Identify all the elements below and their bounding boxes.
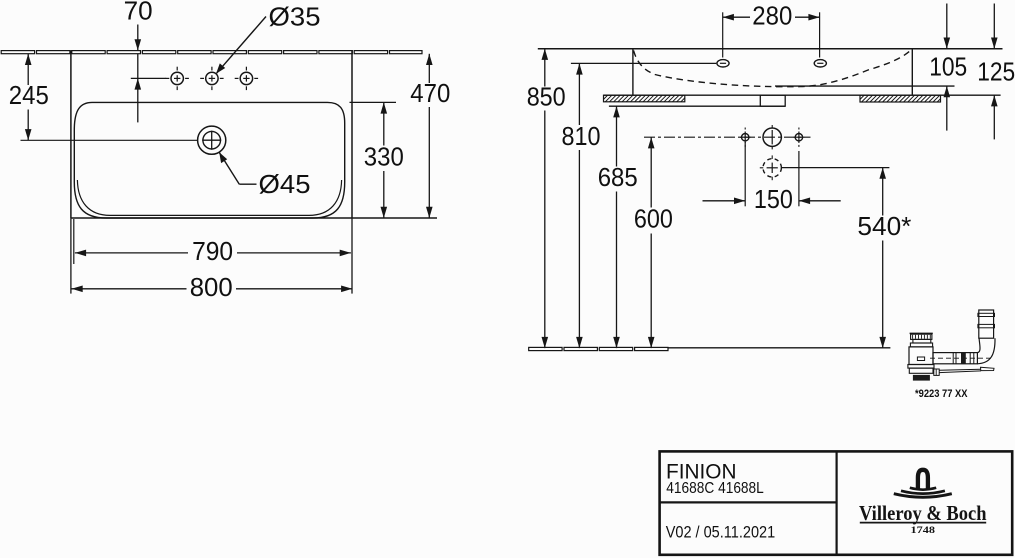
svg-text:540*: 540* [857, 211, 911, 241]
svg-text:685: 685 [598, 162, 638, 192]
tap hole centreline (front view) [571, 62, 716, 64]
wall line (top view, hatched wall face) [1, 51, 422, 54]
tap hole left (front view) [717, 60, 729, 67]
svg-text:125: 125 [977, 56, 1015, 86]
svg-text:150: 150 [754, 184, 793, 214]
drain centreline (horizontal) [21, 139, 198, 141]
dimension 600 (floor to fixing holes) [634, 137, 673, 348]
tap hole centreline [131, 77, 166, 79]
svg-text:Ø35: Ø35 [269, 2, 321, 32]
dimension 810 (floor to tap holes) [562, 63, 601, 348]
front view basin right edge [911, 49, 913, 95]
right fastening bracket (hatched) [860, 95, 941, 102]
basin rim inner edge (double line at bottom) [77, 180, 341, 215]
svg-text:330: 330 [364, 141, 404, 171]
svg-text:Ø45: Ø45 [259, 169, 311, 199]
tap hole right (front view) [814, 60, 826, 67]
waste valve body (trap illustration) [908, 333, 934, 380]
dimension 105 (rim to basin underside) [929, 4, 967, 131]
svg-text:810: 810 [562, 121, 601, 151]
svg-text:1748: 1748 [911, 525, 936, 536]
svg-text:105: 105 [929, 52, 967, 82]
inner basin rim (rounded rectangle) [74, 102, 344, 218]
vertical waste pipe [978, 310, 995, 338]
svg-text:470: 470 [410, 78, 450, 108]
dimension 245 (wall to drain centre) [9, 54, 49, 141]
Villeroy & Boch logo arch [918, 470, 928, 489]
pop-up rod [934, 367, 994, 375]
tap hole right (top view) [235, 67, 258, 90]
tap hole middle (top view) [200, 67, 223, 90]
front view basin left edge [632, 49, 634, 95]
svg-text:600: 600 [634, 204, 673, 234]
drain hole Ø45 (top view) [198, 126, 226, 154]
svg-text:245: 245 [9, 80, 49, 110]
pipe elbow [977, 338, 995, 364]
hidden basin contour (dashed) [634, 50, 912, 87]
extension lines below basin [71, 218, 352, 294]
wordmark underline [860, 522, 986, 524]
dimension 150 (fixing hole spacing) [703, 142, 841, 214]
drain height reference line [782, 167, 890, 169]
dimension 800 (overall width) [72, 272, 353, 302]
fixing holes centreline (dash-dot) [644, 136, 811, 138]
dimension 540* (floor to drain) [857, 168, 911, 349]
trap part number *9223 77 XX [915, 388, 968, 400]
dimension 685 (floor to console bottom) [598, 106, 638, 348]
console bottom line [609, 105, 785, 107]
dimension 280 (tap hole spacing) [723, 0, 820, 57]
title block frame [660, 451, 1013, 554]
tap hole left (top view) [166, 67, 189, 90]
dimension 470 (overall depth) [410, 54, 450, 218]
Villeroy & Boch logo swoosh lines [894, 488, 952, 497]
dimension 850 (floor to rim) [527, 49, 566, 348]
svg-text:850: 850 [527, 81, 566, 111]
svg-text:800: 800 [190, 272, 233, 302]
svg-text:70: 70 [124, 0, 153, 25]
svg-text:V02 / 05.11.2021: V02 / 05.11.2021 [666, 522, 776, 541]
dimension 125 (rim to bracket) [977, 4, 1015, 140]
label Ø35 with leader to middle tap hole [216, 2, 321, 74]
drain position (dashed circle, front view) [760, 155, 782, 180]
svg-text:*9223 77 XX: *9223 77 XX [915, 388, 968, 400]
svg-text:280: 280 [752, 0, 792, 30]
horizontal waste pipe [930, 352, 991, 364]
dimension 70 (wall to tap holes) [124, 0, 153, 122]
svg-text:790: 790 [192, 236, 233, 266]
svg-text:Villeroy & Boch: Villeroy & Boch [859, 501, 987, 525]
drain boss below basin [760, 95, 785, 106]
front view top edge line [538, 48, 1003, 50]
mounting plane line [604, 94, 1001, 96]
fixing hole right [794, 128, 805, 147]
basin underside rear edge line [775, 85, 955, 87]
dimension 790 (rim width) [75, 236, 351, 266]
fixing hole left [740, 128, 751, 147]
dimension 330 (basin depth) [350, 102, 404, 218]
svg-text:41688C 41688L: 41688C 41688L [666, 480, 764, 497]
washbasin outer outline (top view) [71, 50, 437, 218]
tap fixing hole centre (front view) [763, 125, 781, 149]
floor line (hatched) [529, 347, 891, 350]
label Ø45 with leader to drain [219, 152, 311, 199]
left fastening bracket (hatched) [604, 95, 685, 102]
